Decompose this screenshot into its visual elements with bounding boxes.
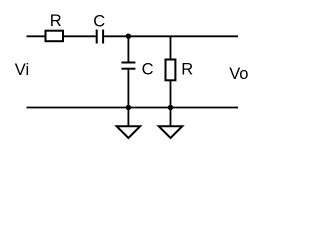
capacitor C1 (series) plate 1 xyxy=(96,30,98,44)
svg-text:R: R xyxy=(181,61,193,79)
capacitor C1 (series) plate 2 xyxy=(102,30,104,44)
resistor R1 (series) xyxy=(46,31,64,42)
svg-text:C: C xyxy=(93,12,105,30)
wire resistor R2 to bottom rail xyxy=(170,80,172,107)
wire junction to ground 1 xyxy=(127,108,129,127)
svg-text:C: C xyxy=(142,60,154,78)
wire top rail left segment xyxy=(27,35,46,37)
capacitor C2 (shunt) plate 2 xyxy=(121,68,135,70)
ground symbol 1 xyxy=(117,126,141,138)
wire junction to ground 2 xyxy=(170,108,172,127)
wire resistor to capacitor xyxy=(64,35,96,37)
svg-text:Vo: Vo xyxy=(229,65,248,83)
wire junction down to shunt capacitor xyxy=(127,36,129,61)
wire bottom rail xyxy=(27,107,239,109)
wire top rail right segment xyxy=(104,35,238,37)
node junction dot bottom left xyxy=(126,105,131,110)
svg-text:R: R xyxy=(50,12,62,30)
wire vertical branch to resistor R2 xyxy=(170,36,172,59)
wire shunt capacitor to bottom rail xyxy=(127,70,129,108)
svg-text:Vi: Vi xyxy=(15,61,29,79)
ground symbol 2 xyxy=(159,126,183,138)
resistor R2 (shunt) xyxy=(166,60,176,81)
capacitor C2 (shunt) plate 1 xyxy=(121,62,135,64)
node junction dot bottom right xyxy=(168,105,173,110)
node junction dot top xyxy=(126,34,131,39)
